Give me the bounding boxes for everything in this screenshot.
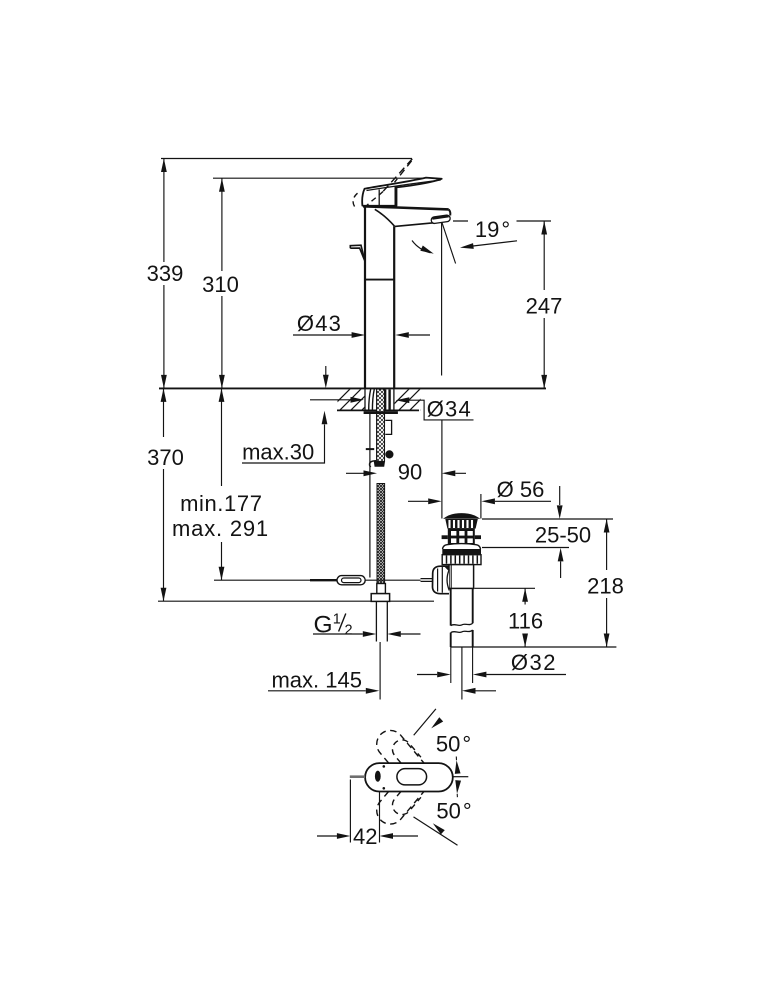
dimension line 90 xyxy=(346,472,466,474)
arrowheads Ø56 xyxy=(428,498,442,504)
arrowheads max30 xyxy=(323,375,329,389)
pull rod below deck xyxy=(369,414,371,578)
arrowheads Ø32 xyxy=(437,672,451,678)
tailpipe break squiggle xyxy=(451,623,473,632)
svg-text:25-50: 25-50 xyxy=(535,523,591,548)
svg-text:116: 116 xyxy=(508,609,543,634)
rod tick xyxy=(366,448,374,450)
dashed raised handle butt xyxy=(353,192,383,210)
arrowheads dimension min177 max291 xyxy=(219,388,225,402)
leader Ø34 label xyxy=(409,400,473,420)
drain flange bevel xyxy=(443,544,481,549)
drain side pins xyxy=(442,535,448,539)
svg-text:2: 2 xyxy=(345,623,353,639)
dimension line 116 xyxy=(524,588,526,647)
extension line top 310 xyxy=(213,177,427,179)
dimension line Ø43 xyxy=(293,334,430,336)
deck hatching left xyxy=(326,386,386,413)
arrowheads 25-50 xyxy=(557,505,563,519)
countertop deck bottom line xyxy=(337,409,419,411)
faucet body left edge xyxy=(364,207,366,388)
washer under deck xyxy=(364,411,398,414)
arrowheads dimension 339 xyxy=(161,159,167,173)
faucet body seam xyxy=(365,279,394,281)
shank end cap xyxy=(374,462,385,467)
dimension line Ø34 left tail xyxy=(310,399,351,401)
svg-text:310: 310 xyxy=(202,272,239,297)
arrowheads dimension 247 xyxy=(541,221,547,235)
plan spout dot xyxy=(375,771,381,782)
drain knurled nut xyxy=(442,555,481,565)
hose curves in deck hole xyxy=(369,389,375,411)
hole right edge in deck xyxy=(393,388,395,410)
reference line 116 top xyxy=(475,587,536,589)
leader 50deg lower xyxy=(414,817,458,845)
dimension line 218 xyxy=(606,519,608,647)
braided hose xyxy=(377,484,385,584)
dimension line 310 xyxy=(221,178,223,388)
lever top inner line xyxy=(367,180,441,191)
G1/2 nut xyxy=(371,594,389,602)
hose end fitting xyxy=(377,584,386,594)
arrowheads dimension 116 xyxy=(522,588,528,602)
svg-text:247: 247 xyxy=(526,294,563,319)
drain ribbed cone xyxy=(445,519,478,529)
dimension line Ø56 xyxy=(408,500,551,502)
aerator xyxy=(431,215,451,224)
linkage rod xyxy=(214,579,421,581)
dimension line 42 xyxy=(317,835,418,837)
spout tip curve xyxy=(449,209,451,215)
spout body fillet xyxy=(375,209,395,226)
svg-text:50°: 50° xyxy=(436,799,471,824)
drain flange dark band xyxy=(442,549,481,555)
tailpipe lower thin section xyxy=(451,647,473,683)
plan arc dots xyxy=(383,765,386,768)
svg-text:42: 42 xyxy=(353,824,377,849)
extension line supply pipe center xyxy=(379,642,381,700)
drain dome cap xyxy=(443,513,480,519)
extension line drain center xyxy=(461,647,463,700)
arrowheads dimension 370 xyxy=(161,388,167,402)
drain body inner line xyxy=(450,565,452,589)
hose hook xyxy=(370,461,376,468)
svg-text:max. 145: max. 145 xyxy=(271,668,362,693)
mounting bracket xyxy=(385,420,391,434)
svg-text:19°: 19° xyxy=(475,217,510,242)
dimension line 247 xyxy=(543,221,545,388)
arrowheads dimension 218 xyxy=(604,519,610,533)
arrowheads Ø34 xyxy=(351,397,365,403)
lever handle outline xyxy=(362,178,442,206)
dimension line max145 xyxy=(268,690,496,692)
lever right face xyxy=(395,186,397,206)
dimension line Ø32 xyxy=(417,674,566,676)
25-50 lower arrow stem xyxy=(560,562,562,579)
leader max30 xyxy=(242,425,325,464)
deck hatching right xyxy=(385,386,445,413)
plan capsule body xyxy=(365,763,453,791)
supply pipe xyxy=(376,602,387,642)
plan angle arrow upper xyxy=(455,757,457,761)
faucet body right edge xyxy=(393,226,395,388)
countertop deck top line xyxy=(159,387,546,389)
plan centerline stub xyxy=(453,776,469,778)
arrowheads dimension 310 xyxy=(219,178,225,192)
reference line 25-50 bottom xyxy=(482,547,569,549)
ball rod housing xyxy=(433,566,450,594)
svg-text:218: 218 xyxy=(587,574,624,599)
arrowhead arc 19deg xyxy=(420,245,435,256)
plan dashed swing lower xyxy=(377,792,424,825)
ball housing seam xyxy=(447,570,449,591)
clevis rod xyxy=(421,579,433,582)
dimension line G1/2 xyxy=(313,633,421,635)
Ø56 right extension xyxy=(480,494,482,519)
reference line 218/116 bottom xyxy=(451,646,617,648)
svg-text:max. 291: max. 291 xyxy=(172,516,269,541)
arrowheads 90 xyxy=(364,470,378,476)
cartridge seam xyxy=(378,190,380,206)
25-50 upper arrow stem xyxy=(559,486,561,505)
screw head dot xyxy=(385,450,393,458)
svg-text:90: 90 xyxy=(398,460,422,485)
plan pull rod stub xyxy=(350,775,365,778)
arrowheads G1/2 xyxy=(363,631,377,637)
dimension line 339 xyxy=(163,159,165,389)
extension line 19deg / 247 top xyxy=(453,220,551,222)
arrowhead leader 19deg xyxy=(460,243,474,250)
arrowheads max145 xyxy=(366,688,380,694)
svg-text:max.30: max.30 xyxy=(242,440,314,465)
reference line drain top 218 xyxy=(482,518,613,520)
drain body tube xyxy=(449,565,474,589)
plan dashed swing upper xyxy=(377,730,424,763)
ball housing top wedge xyxy=(444,566,450,572)
stud bar in deck hole xyxy=(384,390,386,411)
bottom reference line 370 xyxy=(158,600,434,602)
svg-text:339: 339 xyxy=(147,261,184,286)
linkage rod end thick xyxy=(310,579,338,581)
dashed raised handle edge B xyxy=(395,161,412,183)
svg-text:370: 370 xyxy=(147,445,184,470)
svg-text:Ø 56: Ø 56 xyxy=(497,477,545,502)
leader 19deg xyxy=(473,241,517,246)
arc 19deg xyxy=(412,241,431,253)
svg-text:Ø32: Ø32 xyxy=(511,650,557,675)
svg-text:50°: 50° xyxy=(436,732,471,757)
plan handle stadium xyxy=(397,769,427,785)
linkage eyelet outer xyxy=(337,576,365,585)
svg-text:min.177: min.177 xyxy=(180,491,262,516)
arrowheads Ø43 xyxy=(352,332,366,338)
pull rod knob xyxy=(350,245,365,261)
svg-text:Ø43: Ø43 xyxy=(297,311,342,336)
stream vertical reference xyxy=(441,222,443,519)
threaded shank xyxy=(377,389,385,462)
drain adjuster block xyxy=(448,529,475,545)
extension line top 339 xyxy=(161,158,412,160)
svg-text:G: G xyxy=(314,612,333,639)
drain tailpipe xyxy=(451,588,473,647)
leader 50deg upper xyxy=(414,709,436,735)
stream 19deg slant line xyxy=(442,222,456,264)
extension lines 42 xyxy=(350,780,379,843)
spout top edge xyxy=(363,206,449,209)
plan angle arrow lower xyxy=(456,794,458,797)
linkage eyelet inner xyxy=(342,578,362,583)
dimension line min177 max291 xyxy=(221,388,223,580)
max30 upper stub xyxy=(325,366,327,376)
dimension line 370 xyxy=(163,388,165,601)
hole left edge in deck xyxy=(364,388,366,410)
spout underside xyxy=(395,223,434,227)
svg-text:1: 1 xyxy=(333,612,341,628)
svg-text:Ø34: Ø34 xyxy=(427,397,472,422)
dashed raised handle edge A xyxy=(383,159,412,192)
